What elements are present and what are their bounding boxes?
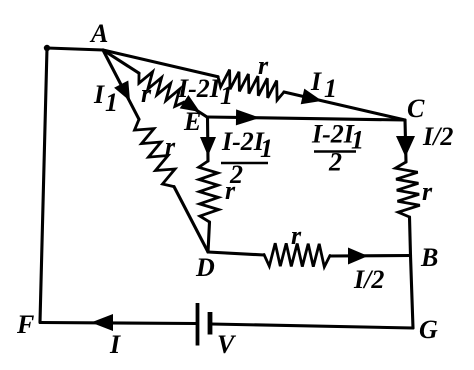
wire: resistor down to D xyxy=(208,222,210,252)
svg-text:V: V xyxy=(217,330,237,359)
resistor r (D-B branch) xyxy=(264,243,330,267)
svg-text:r: r xyxy=(165,132,176,161)
svg-text:C: C xyxy=(407,94,425,123)
svg-text:F: F xyxy=(16,310,34,339)
arrow: current I/2 toward B xyxy=(348,248,368,265)
battery V: long plate xyxy=(196,303,200,346)
wire: resistor to node C on A-C branch xyxy=(284,92,405,120)
wire: E down to resistor xyxy=(206,117,210,161)
resistor r (E-D branch) xyxy=(199,161,219,222)
svg-text:I: I xyxy=(93,80,105,109)
svg-text:r: r xyxy=(225,176,236,205)
wire: battery to G xyxy=(211,324,413,328)
wire: top-left corner to node A xyxy=(44,45,103,51)
svg-text:G: G xyxy=(419,315,438,344)
wire: resistor down to B xyxy=(410,217,411,256)
arrow: current (I-2I1)/2 toward D xyxy=(200,137,216,156)
wire: A to resistor on A-C branch xyxy=(103,50,218,77)
svg-text:D: D xyxy=(195,253,215,282)
resistor r (A-E branch) xyxy=(139,72,184,107)
svg-text:r: r xyxy=(291,221,302,250)
svg-text:r: r xyxy=(258,51,269,80)
wire: A to resistor on A-E branch xyxy=(103,50,139,73)
arrow: current I/2 toward B xyxy=(396,136,415,157)
arrow: current I1 toward D xyxy=(114,81,130,102)
svg-text:I-2I: I-2I xyxy=(311,120,355,149)
wire: C down to resistor xyxy=(405,120,406,162)
wire: A to resistor on A-D branch xyxy=(103,50,139,119)
svg-text:2: 2 xyxy=(328,148,342,177)
wire: resistor to node E xyxy=(184,102,207,117)
svg-text:E: E xyxy=(183,107,201,136)
svg-text:A: A xyxy=(89,19,108,48)
svg-text:B: B xyxy=(420,243,438,272)
arrow: current I on bottom wire (pointing left) xyxy=(91,314,113,331)
wire: resistor to node B xyxy=(330,254,411,258)
svg-text:I-2I: I-2I xyxy=(221,127,265,156)
arrow: current I-2I1 toward E xyxy=(180,95,200,112)
svg-text:I-2I: I-2I xyxy=(177,74,221,103)
wire: left side, corner down to F xyxy=(40,48,47,322)
svg-text:r: r xyxy=(422,177,433,206)
svg-text:1: 1 xyxy=(220,81,233,110)
arrow: current I1 toward C xyxy=(301,89,322,105)
resistor r (C-B branch) xyxy=(395,162,419,217)
svg-text:1: 1 xyxy=(105,88,118,117)
wire: D to resistor on D-B branch xyxy=(208,252,264,255)
svg-text:I: I xyxy=(109,330,121,359)
svg-text:I: I xyxy=(310,67,322,96)
svg-text:I/2: I/2 xyxy=(353,265,384,294)
resistor r (A-D branch) xyxy=(135,119,176,186)
wire: F to battery xyxy=(40,323,196,324)
resistor r (A-C branch) xyxy=(218,70,284,101)
battery V: short plate xyxy=(208,312,213,335)
svg-text:1: 1 xyxy=(351,126,364,155)
svg-text:1: 1 xyxy=(324,74,337,103)
wire: resistor to node D xyxy=(174,187,208,252)
wire: G up to node B xyxy=(411,256,414,329)
wire: E to C xyxy=(207,117,405,120)
svg-text:I/2: I/2 xyxy=(422,122,453,151)
svg-text:1: 1 xyxy=(260,134,273,163)
svg-text:r: r xyxy=(141,79,152,108)
arrow: current (I-2I1)/2 toward C xyxy=(236,109,260,125)
